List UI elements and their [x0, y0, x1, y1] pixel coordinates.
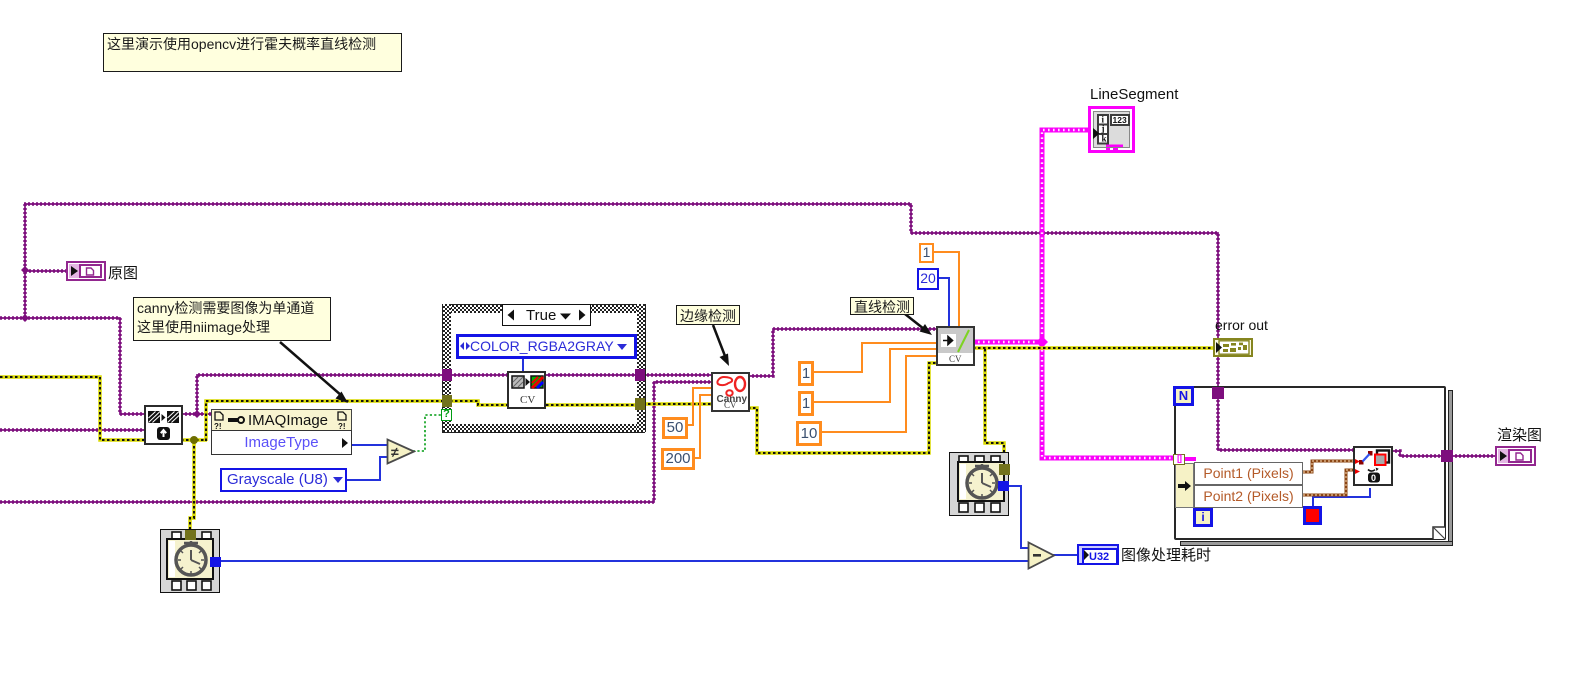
wire image: CV node to case right tunnel	[544, 374, 637, 376]
wire cluster (brown) Point1	[1303, 461, 1355, 495]
constant 1 (rho)	[798, 361, 814, 386]
case tunnel: image in (left, purple)	[442, 369, 452, 381]
wire int: clock 2 to subtract	[1007, 486, 1031, 548]
indicator error out	[1213, 338, 1253, 357]
node IMAQImage property: ImageType row	[211, 430, 352, 455]
wire image: left edge to converter input A	[0, 318, 146, 414]
wire image: left vertical riser	[24, 204, 26, 318]
svg-text:U32: U32	[1089, 551, 1109, 561]
node Tick Count (ms) clock #1	[160, 529, 220, 593]
constant 20 (blue)	[917, 268, 939, 290]
node Canny CV	[711, 372, 750, 412]
wire cluster: Point1 to draw node	[1303, 461, 1355, 472]
wire image: top long run to for-loop tunnel	[24, 204, 1218, 388]
comment 边缘检测	[676, 305, 740, 325]
junction dot (197,414)	[193, 410, 201, 418]
constant enum Grayscale (U8)	[220, 468, 347, 492]
node unbundle row Point1 (Pixels)	[1194, 462, 1303, 485]
indicator 渲染图 (image)	[1495, 446, 1536, 466]
label error out	[1215, 317, 1268, 333]
indicator LineSegment (array of cluster)	[1088, 106, 1135, 153]
wire int: subtract to U32 indicator	[1053, 554, 1080, 556]
svg-text:CV: CV	[520, 394, 535, 406]
node unbundle-by-name left block	[1175, 463, 1194, 508]
node Tick Count (ms) clock #2	[949, 452, 1009, 516]
svg-text:j: j	[1101, 124, 1105, 134]
label 原图	[108, 262, 138, 283]
wire image: draw node out to right tunnel	[1391, 451, 1443, 456]
for-loop page fold corner	[1432, 526, 1447, 541]
wire int: Grayscale(U8) to not-equal	[347, 457, 389, 480]
svg-text:CV: CV	[949, 354, 962, 364]
junction dot (25,270)	[21, 266, 29, 274]
svg-text:k: k	[1102, 134, 1107, 144]
wire error: inside case	[450, 401, 637, 405]
wire error: branch down to clock 2	[985, 349, 1004, 464]
labels layer	[0, 0, 1578, 1]
label 渲染图	[1497, 424, 1542, 445]
wire image: Canny out up to HoughLinesP CV	[748, 329, 938, 376]
wire int: constant 20 to HoughLinesP	[938, 278, 949, 329]
case tunnel: image out (right, purple)	[635, 369, 645, 381]
wire image: inside for-loop to draw node	[1218, 396, 1355, 450]
junction dot olive (194,440)	[190, 436, 198, 444]
constant color box (red)	[1303, 506, 1322, 525]
wire float (orange)	[687, 252, 959, 458]
label LineSegment	[1090, 86, 1178, 103]
wire float: constant 1 (theta) to HoughLinesP	[813, 349, 938, 402]
for-loop count terminal N	[1173, 386, 1194, 406]
wire boolean (green dashed)	[413, 415, 442, 451]
case selector terminal "?" (green)	[441, 409, 452, 421]
node IMAQImage property node (title bar)	[211, 409, 352, 431]
annotation arrow to Canny node	[713, 325, 725, 356]
annotation arrow to IMAQImage node	[280, 342, 342, 396]
node unbundle row Point2 (Pixels)	[1194, 485, 1303, 508]
wire array-of-cluster: HoughLinesP output (pink)	[973, 130, 1174, 458]
case tunnel: error in (left, olive)	[442, 395, 452, 407]
wire int: ImageType to not-equal	[352, 444, 389, 446]
wire image: right tunnel to 渲染图 indicator	[1451, 455, 1497, 457]
structures layer	[0, 0, 1578, 1]
for-loop tunnel: image in (top, purple)	[1212, 387, 1224, 399]
wire float: constant 200 to Canny	[694, 395, 713, 458]
constant 1 (theta)	[798, 391, 814, 416]
wire image: branch up to case left tunnel	[197, 375, 444, 414]
svg-text:0: 0	[1371, 473, 1376, 483]
node subtract	[1027, 541, 1056, 570]
comment 直线检测	[850, 297, 914, 315]
wire image: left edge to converter input B	[0, 429, 146, 431]
comment box top	[103, 33, 402, 72]
for-loop shadow frames	[1448, 390, 1453, 545]
svg-text:IMAQImage: IMAQImage	[248, 412, 328, 429]
comment box canny	[133, 297, 331, 341]
for-loop frame	[1174, 386, 1446, 540]
junction dot pink (1041,342)	[1036, 336, 1048, 348]
for-loop tunnel: image out (right, purple)	[1441, 450, 1453, 462]
case selector label "True"	[502, 304, 591, 326]
svg-text:True: True	[526, 307, 556, 324]
wire image: converter out to property node	[181, 413, 213, 415]
node IMAQ-to-CV image converter	[144, 405, 183, 445]
constant 1 (top)	[919, 243, 934, 263]
constant 200	[661, 448, 695, 470]
wire image: 原图 stub	[25, 270, 66, 272]
wire error: Canny to HoughLinesP	[748, 363, 938, 453]
svg-text:123: 123	[1113, 115, 1127, 125]
constant 50	[662, 417, 688, 439]
svg-text:?!: ?!	[214, 422, 222, 430]
wire float: constant 10 to HoughLinesP	[821, 356, 938, 432]
constant enum COLOR_RGBA2GRAY	[456, 334, 637, 359]
node not-equal ≠	[386, 438, 416, 465]
wire int: color box to draw node	[1313, 488, 1370, 507]
wire image: inside case to CV node	[450, 374, 509, 376]
node HoughLinesP CV	[936, 326, 975, 366]
svg-text:?!: ?!	[338, 422, 346, 430]
wire error (yellow/black dashed)	[0, 348, 1213, 531]
wire float: constant 1 (top) to HoughLinesP	[933, 252, 959, 329]
nodes layer	[0, 0, 1578, 1]
case tunnel: error out (right, olive)	[635, 398, 645, 410]
wire image: case right tunnel to Canny	[643, 374, 713, 376]
wire image: bottom long run to Canny dst input	[0, 382, 713, 502]
label 图像处理耗时	[1121, 544, 1211, 565]
node cvDrawLine	[1353, 446, 1393, 486]
wire error: branch down to clock 1	[190, 441, 194, 531]
annotation arrow to HoughLinesP node	[905, 314, 924, 329]
node cvtColor CV (inside case)	[507, 371, 546, 409]
wire int: clock 1 to subtract	[219, 560, 1031, 562]
indicator U32 图像处理耗时	[1077, 544, 1119, 565]
svg-text:≠: ≠	[391, 444, 399, 460]
case structure border (checkered)	[442, 304, 645, 313]
wire int32 (blue)	[219, 278, 1370, 561]
wire error: case to Canny	[643, 402, 713, 406]
wire float: constant 1 (rho) to HoughLinesP	[813, 343, 938, 372]
wire float: constant 50 to Canny	[687, 388, 713, 425]
wire error: HoughLinesP to error out	[973, 346, 1213, 350]
constant 10	[796, 421, 822, 446]
wire error: up and right to case tunnel	[206, 401, 444, 441]
junction dot (25,318)	[21, 314, 29, 322]
wire cluster: Point2 to draw node	[1303, 470, 1355, 495]
for-loop iteration terminal i	[1193, 508, 1213, 527]
for-loop tunnel: array auto-index (left)	[1173, 454, 1185, 465]
wire array stub at loop tunnel	[1184, 457, 1196, 461]
wire int: COLOR_RGBA2GRAY to CV node	[522, 358, 524, 373]
svg-text:CV: CV	[724, 400, 737, 410]
wire error: converter out	[181, 438, 207, 442]
control 原图 (image refnum)	[66, 261, 106, 281]
wire error: left edge to converter	[0, 377, 146, 440]
